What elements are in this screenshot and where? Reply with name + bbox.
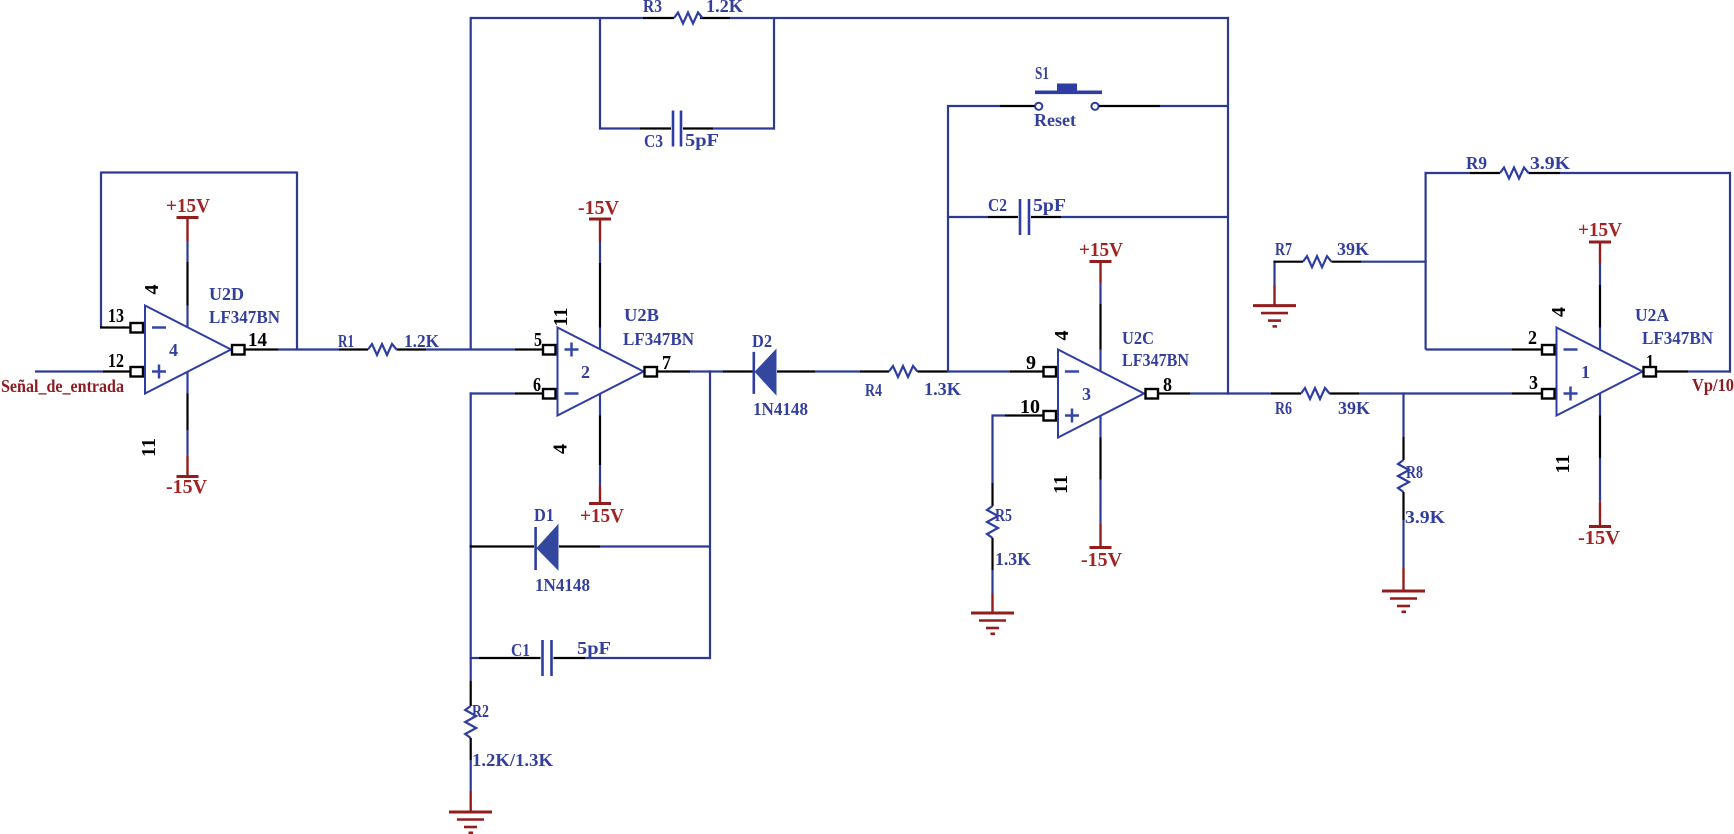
svg-text:1.3K: 1.3K — [924, 379, 961, 399]
wire U2D output to R1 to U2B pin 5 — [245, 348, 544, 350]
svg-text:11: 11 — [1552, 455, 1574, 474]
svg-text:Vp/10: Vp/10 — [1692, 375, 1734, 395]
svg-text:-15V: -15V — [166, 476, 208, 498]
pin 1 label — [1646, 351, 1654, 373]
capacitor C1 — [511, 638, 611, 676]
resistor R3 — [643, 0, 743, 24]
power +15V U2C (top) — [1079, 239, 1124, 350]
wire switch run — [947, 105, 1229, 107]
wire U2B output to D2 — [657, 370, 753, 372]
wire U2A feedback right vertical (R9 to output) — [1729, 172, 1731, 373]
wire U2A feedback left vertical (R9/R7 node to pin 2) — [1426, 172, 1542, 350]
pin 13 terminal — [131, 323, 146, 333]
op-amp U2A refdes labels — [1635, 305, 1713, 348]
pin 11 label U2D (rotated) — [138, 438, 160, 457]
svg-text:LF347BN: LF347BN — [623, 329, 694, 349]
wire D1 run — [470, 545, 711, 547]
svg-text:5: 5 — [534, 329, 542, 351]
pin 4 label U2D (rotated) — [141, 285, 163, 295]
op-amp U2B triangle — [558, 328, 644, 416]
wire junction vertical to D1/C1 right side — [709, 370, 711, 659]
svg-text:S1: S1 — [1035, 63, 1049, 83]
svg-text:39K: 39K — [1337, 239, 1369, 259]
pin 14 label — [248, 329, 267, 351]
svg-text:C2: C2 — [988, 195, 1007, 215]
capacitor C3 — [644, 111, 719, 152]
wire C3 branch left vertical — [599, 18, 601, 130]
svg-text:U2D: U2D — [209, 284, 244, 304]
wire C1 run — [470, 657, 711, 659]
svg-text:2: 2 — [1528, 327, 1537, 349]
pin 11 label U2C (rotated) — [1050, 475, 1072, 494]
op-amp U2D triangle — [145, 306, 231, 394]
power +15V U2D — [166, 195, 211, 306]
pin 2 terminal — [1542, 345, 1557, 355]
op-amp U2C refdes labels — [1122, 328, 1189, 370]
output terminal U2A — [1644, 367, 1657, 377]
pin 10 label — [1020, 396, 1040, 418]
svg-text:R6: R6 — [1275, 398, 1292, 418]
svg-text:3.9K: 3.9K — [1405, 507, 1445, 527]
svg-text:R8: R8 — [1406, 462, 1423, 482]
wire U2C pin 10 to R5 — [991, 414, 1043, 483]
svg-text:3.9K: 3.9K — [1530, 153, 1570, 173]
op-amp U2D refdes labels — [209, 284, 280, 327]
resistor R6 — [1275, 388, 1370, 418]
pin 6 terminal — [543, 389, 558, 399]
pin 3 terminal — [1542, 389, 1557, 399]
svg-text:1N4148: 1N4148 — [753, 399, 808, 419]
svg-text:+15V: +15V — [1578, 219, 1623, 241]
svg-text:LF347BN: LF347BN — [209, 307, 280, 327]
svg-text:-15V: -15V — [1578, 527, 1621, 549]
node Vp/10 (output net label) — [1692, 375, 1734, 395]
wire C3 branch right vertical — [773, 18, 775, 130]
output terminal U2C — [1146, 389, 1159, 399]
wire U2B pin 6 to D1/C1 branch — [470, 392, 543, 659]
svg-text:R3: R3 — [643, 0, 662, 16]
diode D1 — [534, 505, 590, 595]
wire vertical switch/C2 branch to R4 node — [947, 106, 949, 373]
power -15V U2D — [166, 394, 208, 499]
wire C3 bottom run — [599, 127, 775, 129]
wire top net with R3 — [470, 17, 1229, 19]
resistor R2 (vertical) — [465, 658, 553, 791]
pin 4 label U2A (rotated) — [1548, 307, 1570, 317]
node Señal_de_entrada (input net label) — [1, 376, 124, 396]
svg-text:C3: C3 — [644, 131, 663, 151]
power +15V U2A (top) — [1578, 219, 1623, 328]
svg-text:1N4148: 1N4148 — [535, 575, 590, 595]
svg-text:2: 2 — [581, 362, 590, 382]
svg-text:+15V: +15V — [166, 195, 211, 217]
svg-text:1: 1 — [1581, 362, 1590, 382]
svg-text:9: 9 — [1026, 352, 1036, 374]
svg-text:U2C: U2C — [1122, 328, 1154, 348]
svg-text:-15V: -15V — [1081, 549, 1123, 571]
svg-text:R7: R7 — [1275, 239, 1292, 259]
svg-text:1.3K: 1.3K — [995, 549, 1031, 569]
svg-text:39K: 39K — [1338, 398, 1370, 418]
svg-text:3: 3 — [1529, 372, 1538, 394]
svg-text:14: 14 — [248, 329, 267, 351]
pin 2 label — [1528, 327, 1537, 349]
svg-text:5pF: 5pF — [1033, 195, 1066, 215]
svg-text:R1: R1 — [338, 331, 354, 351]
pin 12 label — [108, 350, 124, 372]
resistor R9 — [1466, 153, 1570, 179]
wire input to U2D pin 12 — [35, 370, 130, 372]
ground below R2 — [449, 791, 492, 833]
power -15V U2B (top) — [578, 197, 620, 328]
svg-text:+15V: +15V — [580, 505, 625, 527]
pin 11 label U2A (rotated) — [1552, 455, 1574, 474]
wire D2 to R4 to U2C pin 9 — [777, 370, 1044, 372]
svg-text:+15V: +15V — [1079, 239, 1124, 261]
svg-text:6: 6 — [533, 374, 541, 396]
resistor R5 (vertical) — [987, 483, 1031, 593]
resistor R7 — [1275, 239, 1369, 267]
output terminal U2B — [645, 367, 658, 377]
diode D2 — [752, 331, 808, 419]
svg-text:R4: R4 — [865, 380, 882, 400]
svg-text:11: 11 — [138, 438, 160, 457]
wire R7 run from ground to U2A pin2 vertical — [1274, 261, 1427, 285]
svg-text:R2: R2 — [472, 701, 489, 721]
wire U2A output to feedback vertical — [1656, 370, 1731, 372]
svg-text:12: 12 — [108, 350, 124, 372]
op-amp U2B refdes labels — [623, 305, 694, 349]
wire R9 top run — [1425, 172, 1732, 174]
resistor R4 — [865, 366, 961, 400]
svg-text:Reset: Reset — [1034, 110, 1076, 130]
switch S1 — [1034, 63, 1102, 130]
pin 6 label — [533, 374, 541, 396]
svg-text:-15V: -15V — [578, 197, 620, 219]
svg-text:D1: D1 — [534, 505, 554, 525]
wire C2 run — [947, 216, 1229, 218]
svg-text:11: 11 — [550, 308, 572, 327]
svg-text:LF347BN: LF347BN — [1642, 328, 1713, 348]
svg-text:1.2K/1.3K: 1.2K/1.3K — [472, 750, 553, 770]
pin 13 label — [108, 305, 124, 327]
svg-text:R9: R9 — [1466, 153, 1487, 173]
pin 3 label — [1529, 372, 1538, 394]
pin 5 label — [534, 329, 542, 351]
output terminal U2D — [232, 345, 245, 355]
svg-text:1.2K: 1.2K — [706, 0, 743, 16]
ground below R7 — [1253, 285, 1296, 326]
pin 4 label U2B (rotated) — [550, 444, 572, 454]
op-amp U2A triangle — [1557, 328, 1643, 416]
pin 11 label U2B (rotated) — [550, 308, 572, 327]
pin 9 label — [1026, 352, 1036, 374]
svg-text:R5: R5 — [995, 505, 1012, 525]
resistor R1 — [338, 331, 439, 355]
svg-text:4: 4 — [1051, 331, 1073, 341]
svg-text:D2: D2 — [752, 331, 772, 351]
ground below R8 — [1382, 568, 1425, 612]
pin 12 terminal — [131, 367, 146, 377]
svg-text:4: 4 — [1548, 307, 1570, 317]
svg-text:13: 13 — [108, 305, 124, 327]
svg-text:4: 4 — [141, 285, 163, 295]
pin 7 label — [662, 352, 671, 374]
svg-text:Señal_de_entrada: Señal_de_entrada — [1, 376, 124, 396]
svg-text:4: 4 — [169, 340, 178, 360]
pin 4 label U2C (rotated) — [1051, 331, 1073, 341]
wire right vertical from top net down to U2C output node — [1227, 17, 1229, 395]
svg-text:1.2K: 1.2K — [404, 331, 439, 351]
wire vertical from top net down to U2B pin5 node — [470, 18, 472, 350]
svg-text:U2A: U2A — [1635, 305, 1669, 325]
resistor R8 (vertical) hanging from R6 node — [1398, 392, 1445, 568]
svg-text:10: 10 — [1020, 396, 1040, 418]
svg-text:11: 11 — [1050, 475, 1072, 494]
svg-text:3: 3 — [1082, 384, 1091, 404]
power -15V U2A (bottom) — [1578, 416, 1621, 550]
power -15V U2C (bottom) — [1081, 438, 1123, 572]
svg-text:5pF: 5pF — [577, 638, 611, 658]
svg-text:U2B: U2B — [624, 305, 659, 325]
pin 5 terminal — [543, 345, 558, 355]
power +15V U2B (bottom) — [580, 416, 625, 528]
wire U2C output to R6 to U2A pin 3 — [1158, 392, 1542, 394]
svg-text:LF347BN: LF347BN — [1122, 350, 1189, 370]
svg-text:5pF: 5pF — [685, 130, 719, 150]
wire U2D feedback loop (output to pin 13) — [100, 172, 297, 350]
op-amp U2C triangle — [1058, 350, 1144, 438]
capacitor C2 — [988, 195, 1066, 235]
pin 8 label — [1163, 374, 1172, 396]
pin 9 terminal — [1044, 367, 1059, 377]
ground below R5 — [971, 593, 1014, 634]
svg-text:4: 4 — [550, 444, 572, 454]
pin 10 terminal — [1044, 411, 1059, 421]
